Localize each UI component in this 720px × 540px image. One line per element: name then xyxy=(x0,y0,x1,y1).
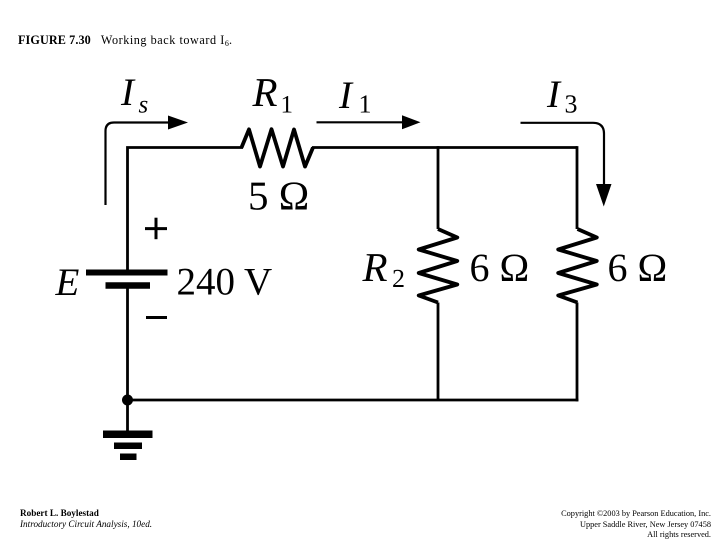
wire: battery negative terminal to bottom node xyxy=(126,289,129,401)
wire: right branch from resistor to bottom-right corner xyxy=(576,303,579,402)
resistor R2 zigzag xyxy=(419,229,458,303)
wire: bottom return wire xyxy=(126,399,578,402)
svg-text:2: 2 xyxy=(392,264,405,293)
svg-text:I: I xyxy=(338,74,354,117)
figure caption xyxy=(18,33,232,48)
wire: top right of R1 to top-right corner xyxy=(312,146,577,149)
arrow I1 xyxy=(317,115,421,129)
svg-text:6 Ω: 6 Ω xyxy=(608,245,668,290)
label Is xyxy=(120,71,148,119)
arrow I3 xyxy=(521,123,612,207)
svg-text:s: s xyxy=(139,92,149,119)
svg-text:I: I xyxy=(120,71,136,114)
wire: left branch top (corner to battery) xyxy=(126,148,243,271)
svg-text:3: 3 xyxy=(565,90,578,119)
svg-text:240 V: 240 V xyxy=(177,261,273,304)
battery E positive plate xyxy=(86,270,168,276)
wire: right branch from top corner to right resistor xyxy=(576,146,579,229)
svg-text:6 Ω: 6 Ω xyxy=(470,245,530,290)
wire: middle branch from R2 to bottom wire xyxy=(437,303,440,401)
label - polarity xyxy=(146,316,167,319)
label R2 xyxy=(362,244,406,293)
label I1 xyxy=(338,74,372,119)
resistor R1 zigzag xyxy=(242,129,314,166)
battery E negative plate xyxy=(106,282,151,289)
resistor R3 (right 6 ohm) zigzag xyxy=(558,229,597,303)
arrow Is (source current) xyxy=(106,116,189,206)
ground symbol xyxy=(103,434,153,457)
svg-text:I: I xyxy=(546,73,562,116)
svg-text:5 Ω: 5 Ω xyxy=(248,172,309,218)
node: bottom-left junction dot xyxy=(122,395,133,406)
footer: author credit xyxy=(20,508,152,531)
svg-text:1: 1 xyxy=(281,92,294,119)
label I3 xyxy=(546,73,578,119)
ground stem wire xyxy=(126,400,129,431)
svg-text:E: E xyxy=(55,261,80,304)
label + polarity xyxy=(145,218,167,240)
svg-text:R: R xyxy=(252,69,278,115)
wire: middle branch from top wire to R2 xyxy=(437,146,440,229)
svg-text:1: 1 xyxy=(359,90,372,119)
label R1 xyxy=(252,69,294,119)
svg-text:R: R xyxy=(362,244,388,290)
footer: copyright notice xyxy=(561,509,711,540)
